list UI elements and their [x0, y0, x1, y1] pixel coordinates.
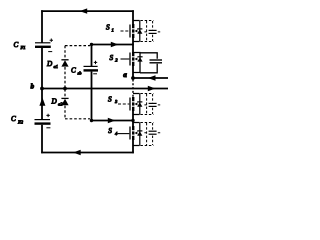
svg-text:S: S	[108, 96, 112, 104]
svg-text:C: C	[11, 115, 16, 123]
wire left rail mid	[41, 48, 43, 89]
diode S1 body branch	[139, 21, 141, 42]
transistor S2 channel	[132, 52, 134, 66]
capacitor S3 snubber box dashed	[141, 93, 154, 95]
capacitor Csb	[84, 65, 98, 67]
diode Da1	[61, 59, 68, 61]
arrow current on top rail (left)	[80, 8, 88, 13]
wire S1 stubs to diode branch	[133, 21, 140, 42]
transistor S3 channel	[132, 97, 134, 111]
node a	[131, 76, 135, 80]
svg-text:sb: sb	[78, 71, 83, 76]
transistor S4 gate	[129, 127, 131, 140]
wire node a horizontal to right edge	[133, 77, 168, 79]
diode S3 body branch	[139, 94, 141, 115]
clamp branch dashed: top horizontal	[65, 45, 90, 47]
capacitor S4 snubber box dashed	[141, 122, 154, 124]
wire bottom rail	[41, 152, 134, 154]
wire node b horizontal to right edge	[42, 88, 168, 90]
svg-text:S: S	[108, 127, 112, 135]
diode Da2	[61, 97, 68, 99]
transistor S2 gate	[129, 53, 131, 66]
wire S2 stubs to clamp box	[133, 53, 141, 73]
wire S3 stubs to diode branch	[133, 94, 140, 115]
wire flying branch lower	[91, 72, 93, 121]
diode S4 body branch	[139, 123, 141, 146]
wire left rail upper	[41, 10, 43, 42]
wire top rail	[41, 10, 134, 12]
wire S4 drain lead	[132, 121, 134, 127]
svg-text:C: C	[14, 41, 19, 49]
wire left rail lower	[41, 89, 43, 120]
node b	[40, 87, 44, 91]
capacitor S1 snubber box dashed	[141, 20, 154, 22]
wire S2 source lead	[132, 66, 134, 78]
node flying cap top	[90, 43, 93, 46]
svg-text:C: C	[71, 67, 76, 75]
svg-text:F2: F2	[17, 120, 24, 125]
svg-text:a: a	[123, 71, 127, 79]
svg-text:S: S	[110, 54, 114, 62]
diode S2 body branch	[139, 53, 141, 73]
svg-text:b: b	[31, 83, 35, 91]
node clamp on b wire	[63, 87, 67, 91]
transistor S3 gate	[129, 98, 131, 111]
wire S2 drain lead	[132, 45, 134, 53]
flying capacitor branch vertical	[91, 45, 93, 67]
svg-text:S: S	[106, 24, 110, 32]
svg-text:D: D	[46, 60, 53, 68]
wire dashed b to Da2	[64, 89, 66, 98]
transistor S1 channel	[132, 24, 134, 38]
wire dashed Da1 to b wire	[64, 67, 66, 88]
wire S4 source lead	[132, 140, 134, 153]
arrow current on bottom rail (left)	[73, 150, 81, 155]
node flying cap bottom	[90, 119, 93, 122]
transistor S4 channel	[132, 126, 134, 140]
svg-text:a1: a1	[54, 64, 59, 69]
wire S4 stubs to diode branch	[133, 123, 140, 146]
wire S1 drain lead	[132, 10, 134, 24]
wire dashed Da2 down	[64, 106, 66, 119]
wire S3 source lead	[132, 111, 134, 121]
wire S1 source lead	[132, 38, 134, 45]
wire dashed down to Da1	[64, 46, 66, 60]
wire S3/S4 midpoint y=120.5	[91, 120, 134, 122]
node S3/S4 junction	[131, 119, 134, 122]
svg-text:1: 1	[112, 28, 114, 33]
svg-text:a2: a2	[58, 101, 63, 106]
clamp branch dashed: bottom horizontal	[65, 118, 90, 120]
capacitor CF1	[35, 42, 50, 44]
capacitor S2 snubber box solid	[140, 53, 157, 73]
wire S1/S2 midpoint y=44.5	[91, 44, 134, 46]
arrow current on a wire (left)	[148, 75, 156, 80]
transistor S1 gate	[129, 25, 131, 38]
wire left rail bottom	[41, 125, 43, 154]
arrow current on b wire (right)	[148, 86, 156, 91]
wire S3 drain lead dashed from node a	[132, 80, 134, 97]
svg-text:D: D	[51, 98, 58, 106]
arrow current up on left rail	[39, 98, 45, 106]
svg-text:F1: F1	[20, 45, 26, 50]
capacitor CF2	[35, 119, 51, 121]
